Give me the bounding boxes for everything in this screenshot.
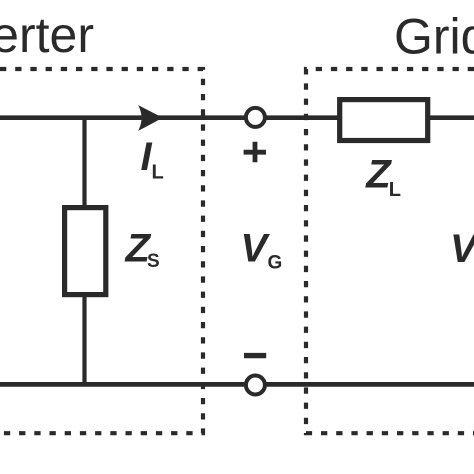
current arrow I_L [138, 105, 163, 131]
wire: node circle to Z_L [266, 115, 340, 120]
node: bottom terminal circle [246, 376, 265, 395]
impedance Z_L box [340, 100, 428, 141]
wire: Z_L to right edge [429, 115, 474, 120]
inverter dashed box [0, 69, 203, 433]
plus sign [244, 142, 266, 163]
wire: bottom node circle to right edge [266, 382, 474, 387]
svg-text:V: V [241, 227, 271, 271]
svg-text:G: G [268, 253, 283, 274]
svg-text:Grid: Grid [394, 8, 474, 64]
svg-text:Inverter: Inverter [0, 7, 94, 63]
wire: Z_S down to bottom bus [82, 296, 86, 386]
minus sign [244, 353, 266, 358]
svg-text:S: S [147, 251, 160, 272]
grid dashed box [306, 69, 474, 433]
wire: bottom bus, left edge to node circle [0, 382, 245, 387]
svg-text:V: V [450, 227, 474, 271]
impedance Z_S box [65, 208, 106, 295]
node: top terminal circle [246, 108, 265, 127]
svg-text:L: L [152, 161, 164, 183]
svg-text:L: L [389, 179, 401, 201]
wire: top bus down to Z_S [82, 116, 86, 206]
wire: top bus, left edge to node circle [0, 115, 245, 120]
